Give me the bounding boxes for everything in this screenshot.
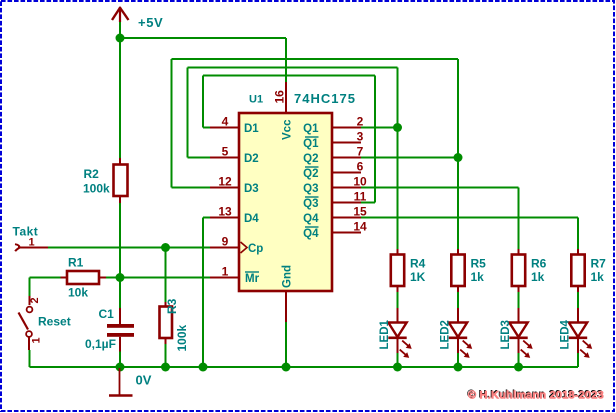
wire +5V rail to Vcc [120,38,286,82]
svg-text:74HC175: 74HC175 [294,91,356,106]
svg-text:0,1µF: 0,1µF [85,337,116,351]
svg-text:R7: R7 [591,257,607,271]
pin 16 Vcc [273,82,294,140]
pin 1 Mr [210,264,260,285]
wire R2 to Mr node [119,203,121,278]
power symbol +5V [112,7,163,30]
svg-text:2: 2 [29,297,41,303]
junction rail LED3 [514,363,523,372]
svg-text:U1: U1 [249,94,263,106]
junction Takt / R3 [161,243,170,252]
svg-text:R2: R2 [84,167,100,181]
junction R2 / Mr node [116,273,125,282]
wire Q3 to R6 [361,188,519,250]
svg-text:Q2: Q2 [303,168,318,180]
wire Mr node down to C1 [119,278,121,309]
wire LED2 to rail [457,353,459,367]
wire R4 to LED1 [397,292,399,308]
resistor R3 100k pulldown [160,298,190,351]
op-amp U1 74HC175 body [239,91,356,291]
svg-text:Gnd: Gnd [282,265,294,288]
wire +5V down to R2 [119,38,121,158]
svg-text:LED2: LED2 [440,320,452,349]
svg-text:11: 11 [354,189,367,203]
svg-text:Vcc: Vcc [282,119,294,140]
junction rail C1 [116,363,125,372]
wire C1 to ground rail [119,352,121,368]
pin 14 Q4-bar [303,219,367,240]
svg-text:100k: 100k [175,324,189,351]
LED LED1 [379,308,412,358]
svg-text:Q1: Q1 [303,123,319,135]
wire Gnd pin to rail [285,322,287,367]
svg-text:Mr: Mr [245,273,260,285]
resistor R1 10k [61,256,107,300]
resistor R7 1k [571,249,606,292]
svg-text:D4: D4 [244,213,259,225]
wire Q2 to D3 feedback [172,59,459,188]
pin 10 Q3 [303,174,367,195]
svg-text:10k: 10k [68,286,88,300]
wire R6 to LED3 [518,292,520,308]
svg-text:1: 1 [31,337,43,343]
wire Q3-bar to D1 feedback [203,76,375,203]
svg-text:10: 10 [353,174,367,188]
pin 8 Gnd [282,265,294,322]
svg-text:Q2: Q2 [303,153,318,165]
svg-text:0V: 0V [136,373,152,388]
pin 11 Q3-bar [303,189,367,210]
LED LED4 [560,308,593,358]
svg-text:+5V: +5V [138,15,163,30]
svg-text:Q4: Q4 [303,213,319,225]
pin 4 D1 [210,114,259,135]
svg-text:3: 3 [357,129,364,143]
svg-text:6: 6 [357,159,364,173]
svg-text:Q4: Q4 [303,228,319,240]
svg-text:Q1: Q1 [303,138,319,150]
text copyright [467,388,604,401]
junction rail LED1 [393,363,402,372]
svg-text:4: 4 [222,114,229,128]
svg-text:R6: R6 [531,257,547,271]
wire +5V vertical from arrow to junction [119,22,121,38]
wire Q1 to D2 feedback [188,68,398,158]
capacitor C1 0,1uF [85,307,134,352]
pin 7 Q2 [303,144,364,165]
svg-text:1k: 1k [531,270,545,284]
svg-text:Reset: Reset [38,315,71,329]
resistor R6 1k [512,249,547,292]
junction +5V node [116,34,125,43]
svg-text:D1: D1 [244,123,259,135]
wire LED4 to rail [577,353,579,367]
svg-text:R4: R4 [410,257,426,271]
wire LED3 to rail [518,353,520,367]
LED LED2 [440,308,473,358]
ground symbol 0V [109,368,152,396]
pin 15 Q4 [303,204,367,225]
svg-text:1: 1 [222,264,229,278]
wire Mr line from R1 to pin 1 [106,277,210,279]
svg-text:13: 13 [218,204,232,218]
junction rail D4 [199,363,208,372]
wire R7 to LED4 [577,292,579,308]
wire Takt to Cp [48,247,210,249]
junction Q2 column [454,153,463,162]
connector Takt input pin 1 [13,225,49,252]
svg-text:2: 2 [357,114,364,128]
junction rail LED2 [454,363,463,372]
svg-text:R5: R5 [471,257,487,271]
wire switch to ground rail [30,350,121,367]
svg-text:1k: 1k [591,270,605,284]
svg-text:12: 12 [218,174,232,188]
pin 6 Q2-bar [303,159,364,180]
pin 13 D4 [210,204,259,225]
LED LED3 [500,308,533,358]
wire R1 to switch [30,278,61,297]
resistor R5 1k [451,249,486,292]
svg-text:LED1: LED1 [379,320,391,350]
svg-text:5: 5 [222,144,229,158]
switch Reset [19,296,71,350]
pin 2 Q1 [303,114,364,135]
svg-text:15: 15 [353,204,367,218]
svg-text:9: 9 [222,234,229,248]
wire ground rail 0V [120,366,578,368]
wire D4 to ground [203,218,210,368]
pin 12 D3 [210,174,259,195]
svg-text:14: 14 [353,219,367,233]
wire Q1 column down to R4 [397,128,399,250]
wire Q4 to R7 [361,218,578,250]
svg-text:R3: R3 [165,298,179,314]
svg-text:C1: C1 [99,307,115,321]
resistor R2 100k [83,158,128,203]
svg-text:LED3: LED3 [500,320,512,349]
svg-text:16: 16 [273,90,287,104]
svg-text:Cp: Cp [248,243,263,255]
junction rail R3 [161,363,170,372]
svg-text:1K: 1K [410,270,426,284]
wire LED1 to rail [397,353,399,367]
resistor R4 1K [391,249,426,292]
wire Q2 column down to R5 [457,158,459,250]
svg-text:Q3: Q3 [303,183,318,195]
svg-text:100k: 100k [83,182,110,196]
svg-text:Q3: Q3 [303,198,318,210]
wire R5 to LED2 [457,292,459,308]
svg-text:D2: D2 [244,153,259,165]
svg-text:7: 7 [357,144,364,158]
pin 5 D2 [210,144,259,165]
svg-text:R1: R1 [68,256,84,270]
svg-text:LED4: LED4 [560,320,572,350]
svg-text:© H.Kuhlmann 2018-2023: © H.Kuhlmann 2018-2023 [468,390,604,402]
svg-text:D3: D3 [244,183,259,195]
wire R3 to ground rail [165,344,167,367]
svg-text:1: 1 [28,237,34,249]
junction Q1 column [393,123,402,132]
pin 3 Q1-bar [303,129,364,150]
pin 9 Cp [210,234,263,255]
wire Takt junction down to R3 [165,248,167,303]
svg-text:1k: 1k [471,270,485,284]
junction rail Gnd pin [282,363,291,372]
